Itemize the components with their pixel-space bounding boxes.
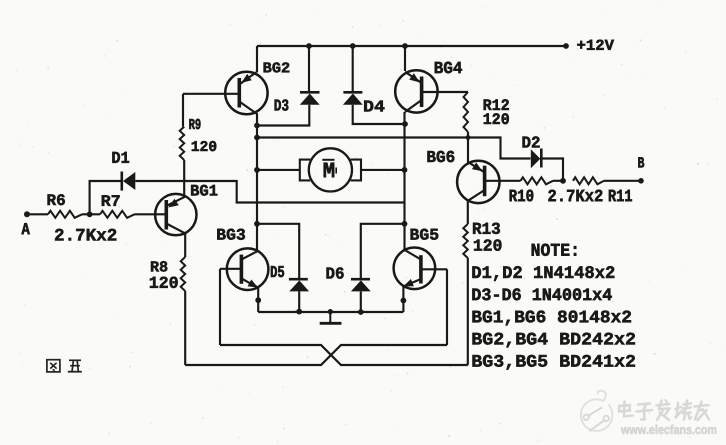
wire right rail [403,112,405,250]
note line D1,D2 [472,266,614,281]
wire BG2-base corner to R9 [182,94,184,127]
wire BG2 base [183,93,239,95]
label R13 value 120 [474,239,501,250]
label 2.7Kx2 left [55,229,116,241]
label R12 [484,99,509,110]
label R13 [473,223,500,234]
wire R8-BG5base lower-left [185,345,447,365]
diode D5 [289,278,308,281]
node left-rail D3-link [254,123,260,129]
wire BG3base-R13 upper-left [220,345,468,365]
wire R13 down [467,258,469,365]
node left rail D5 tap [254,221,260,227]
node R12-BG6 junction [466,135,471,140]
wire left rail to D5 [257,224,299,278]
wire BG5 emitter down [402,287,404,313]
label D4 [364,101,384,112]
wire left rail [256,114,258,253]
label R12 value 120 [484,113,509,124]
watermark elecfans logo and text [581,399,613,431]
label BG2 [264,62,290,72]
wire BG3 emitter down [257,288,259,312]
label A [22,223,30,234]
wire R8 down [184,291,186,365]
wire R12 bottom [467,132,469,138]
note line D3-D6 [472,288,611,300]
label BG3 [217,229,245,240]
label D1 [112,152,129,163]
node left-rail long-link [254,135,260,141]
label +12V [577,40,614,50]
label D6 [327,267,344,278]
wire D6 bottom [360,291,362,312]
node right rail motor tap [402,167,408,173]
resistor R6 [48,211,82,218]
wire R9 to BG1 emitter [183,160,185,197]
label R9 value 120 [192,141,216,151]
node BG5 emitter dot [401,298,407,304]
node BG3 emitter dot [255,297,261,303]
wire motor left [257,169,300,171]
node D6-ground junction [358,309,364,315]
ground [329,312,331,323]
wire BG6 collector down [467,201,469,224]
label BG1 [191,185,217,196]
resistor R8 [181,257,186,291]
note line BG2,BG4 [473,333,635,348]
label R6 [48,194,65,205]
node rail-BG4 junction [402,43,408,49]
wire D4 bottom [353,105,405,124]
transistor BG5 [394,247,436,289]
motor left brush [300,160,310,181]
node ground tap [328,309,333,314]
wire ground row [258,311,403,313]
node rail-D3 junction [306,43,312,49]
label R10 [510,190,534,202]
node +12V terminal [563,43,569,49]
label R8 [151,261,167,271]
diode D1 [121,172,124,191]
label D3 [275,99,289,110]
wire BG5 base down [446,269,448,345]
transistor BG4 [395,70,437,112]
note line BG3,BG5 [473,355,635,370]
label D2 [523,136,540,147]
wire A to R6 [27,213,48,215]
diode D2 [531,149,541,168]
wire R11 to B [604,180,641,182]
wire BG4 base to R12 [422,91,468,93]
node terminal B [638,178,644,184]
resistor R9 [180,127,185,160]
transistor BG3 [227,248,269,290]
diode D3 [300,91,320,94]
node left rail motor tap [254,167,260,173]
label NOTE [532,244,577,256]
wire R7 to BG1 base [135,213,167,215]
wire BG4 emitter to rail [404,46,406,71]
node D5-ground junction [296,309,302,315]
wire D2 to junction [541,159,563,181]
wire BG6 emitter up [467,138,469,163]
motor M label [324,163,334,177]
resistor R11 [573,177,604,184]
wire BG1 collector to R8 [184,233,186,258]
diode D6 [351,278,370,281]
label B [638,157,644,167]
label D5 [271,266,284,277]
caption 图 [47,360,60,372]
label R9 [189,119,200,129]
wire BG5 base [421,268,447,270]
resistor R12 [464,92,469,132]
node rail-D4 junction [350,43,356,49]
motor M circle [309,148,352,191]
transistor BG1 [155,194,196,235]
node right-rail D4-link [402,121,408,127]
label 2.7Kx2 right [548,190,602,202]
resistor R13 [463,224,468,258]
wire D5 bottom [298,291,300,312]
wire +12V top rail [257,45,566,47]
wire junction up to D1 [90,181,121,214]
node terminal A [24,211,30,217]
resistor R10 [521,177,554,184]
wire right rail to D6 [361,224,405,278]
wire R6-R7 link [82,213,100,215]
wire BG6 base to R10 [485,180,521,182]
label BG5 [411,229,439,240]
wire BG3 base down [219,269,221,345]
node R6-R7 junction [87,211,93,217]
wire D4 top [352,46,354,92]
resistor R7 [100,211,135,218]
wire BG3 base [220,268,241,270]
note line BG1,BG6 [472,311,630,326]
wire D1 to right rail [135,181,404,203]
transistor BG6 [457,161,499,203]
diode D4 [343,91,362,94]
motor right brush [351,160,361,181]
wire BG2 emitter to rail [256,46,258,73]
caption 五 [68,360,82,371]
wire motor right [361,169,405,171]
label R7 [102,195,120,206]
wire R10 to junction [553,180,563,182]
transistor BG2 [225,72,267,114]
wire node-to-D2 long link [257,138,531,159]
wire D3 top [308,46,310,92]
node D2-R10R11 junction [560,178,566,184]
wire D3 bottom [257,105,309,126]
label R11 [609,190,632,201]
node right rail D6 tap [402,221,408,227]
label BG4 [435,62,462,74]
label BG6 [427,151,454,162]
label R8 value 120 [150,277,178,288]
